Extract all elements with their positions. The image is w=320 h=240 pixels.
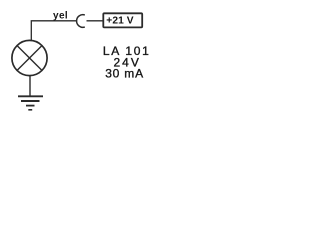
label LA 101 (lamp type) — [103, 44, 151, 58]
wire from lamp bottom to ground — [29, 76, 31, 96]
supply terminal box +21 V — [103, 13, 142, 27]
lamp LA101 (circle with X) — [12, 40, 47, 75]
label 30 mA (lamp current) — [105, 67, 144, 81]
label 24 V (lamp voltage) — [114, 56, 141, 70]
wire from lamp top, up and right to connector — [31, 21, 77, 40]
svg-text:30 mA: 30 mA — [105, 67, 144, 81]
connector (socket half, arc open right) — [77, 15, 85, 28]
svg-text:yel: yel — [53, 11, 68, 22]
svg-text:+21 V: +21 V — [106, 16, 134, 27]
wire from connector to +21V box — [87, 20, 104, 22]
wire colour label yel — [53, 11, 68, 22]
ground — [18, 96, 43, 110]
